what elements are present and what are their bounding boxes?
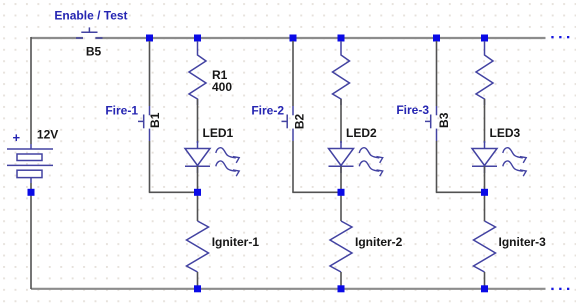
continuation dots bottom <box>551 288 553 290</box>
svg-text:LED3: LED3 <box>490 126 521 140</box>
wire igniter-2 to bottom rail <box>340 272 342 289</box>
wire bottom rail <box>31 288 546 290</box>
wire B2 column upper <box>292 41 294 106</box>
LED2 light arrow b <box>359 161 379 171</box>
LED3 light arrow b <box>503 161 523 171</box>
node bottom rail branch 2 <box>338 285 345 292</box>
svg-text:12V: 12V <box>37 127 58 141</box>
wire igniter-1 to bottom rail <box>197 272 199 289</box>
svg-text:B5: B5 <box>86 44 102 58</box>
wire LED1 to igniter <box>197 166 199 221</box>
switch B2 <box>282 106 294 141</box>
node top rail B3 column <box>433 35 440 42</box>
LED2 light arrow a <box>359 148 379 158</box>
wire left column lower <box>30 183 32 289</box>
svg-text:400: 400 <box>212 80 232 94</box>
node LED2 bottom <box>338 189 345 196</box>
wire R3 to LED3 <box>484 99 486 143</box>
continuation dots top <box>551 36 553 38</box>
LED D1 <box>185 141 210 173</box>
svg-text:LED2: LED2 <box>346 126 377 140</box>
svg-text:Fire-2: Fire-2 <box>251 103 284 117</box>
resistor Igniter-2 <box>330 221 352 272</box>
LED1 light arrow a <box>216 148 236 158</box>
svg-text:Fire-3: Fire-3 <box>396 103 429 117</box>
svg-text:B3: B3 <box>437 112 451 128</box>
wire LED3 to igniter <box>484 166 486 221</box>
wire LED2 to igniter <box>340 166 342 221</box>
wire R1 to LED1 <box>197 99 199 143</box>
svg-text:B2: B2 <box>293 114 307 130</box>
node LED3 bottom <box>481 189 488 196</box>
switch B3 <box>425 106 437 141</box>
wire B1 column lower <box>149 141 151 192</box>
node top rail R3 column <box>481 35 488 42</box>
svg-text:Igniter-1: Igniter-1 <box>212 235 260 249</box>
LED D3 <box>472 141 497 173</box>
wire B3 column lower <box>436 141 438 192</box>
resistor Igniter-1 <box>187 221 209 272</box>
wire B3 to LED3 connector <box>436 191 485 193</box>
svg-text:+: + <box>13 130 21 145</box>
wire B1 column upper <box>149 41 151 106</box>
wire igniter-3 to bottom rail <box>484 272 486 289</box>
resistor R3 <box>476 41 493 105</box>
node bottom rail branch 1 <box>194 285 201 292</box>
svg-text:B1: B1 <box>148 112 162 128</box>
LED3 light arrow a <box>503 148 523 158</box>
wire left column upper <box>30 37 32 144</box>
node below battery <box>28 189 35 196</box>
wire B3 column upper <box>436 41 438 106</box>
switch B1 <box>138 106 150 141</box>
wire B2 to LED2 connector <box>292 191 341 193</box>
wire top rail right segment <box>95 37 545 39</box>
node top rail R1 column <box>194 35 201 42</box>
svg-text:Igniter-3: Igniter-3 <box>499 235 547 249</box>
switch B5 <box>76 27 103 38</box>
node LED1 bottom <box>194 189 201 196</box>
battery V1 12V <box>7 144 53 183</box>
svg-text:Enable / Test: Enable / Test <box>54 8 127 22</box>
LED D2 <box>329 141 354 173</box>
resistor Igniter-3 <box>474 221 496 272</box>
node bottom rail branch 3 <box>481 285 488 292</box>
wire B1 to LED1 connector <box>149 191 198 193</box>
wire top rail left segment <box>31 37 83 39</box>
node top rail B1 column <box>146 35 153 42</box>
svg-text:Fire-1: Fire-1 <box>105 103 138 117</box>
wire B2 column lower <box>292 141 294 192</box>
svg-text:LED1: LED1 <box>203 126 234 140</box>
LED1 light arrow b <box>216 161 236 171</box>
node top rail B2 column <box>290 35 297 42</box>
node top rail R2 column <box>338 35 345 42</box>
svg-text:Igniter-2: Igniter-2 <box>355 235 403 249</box>
wire R2 to LED2 <box>340 99 342 143</box>
resistor R1 <box>189 41 206 105</box>
resistor R2 <box>333 41 350 105</box>
